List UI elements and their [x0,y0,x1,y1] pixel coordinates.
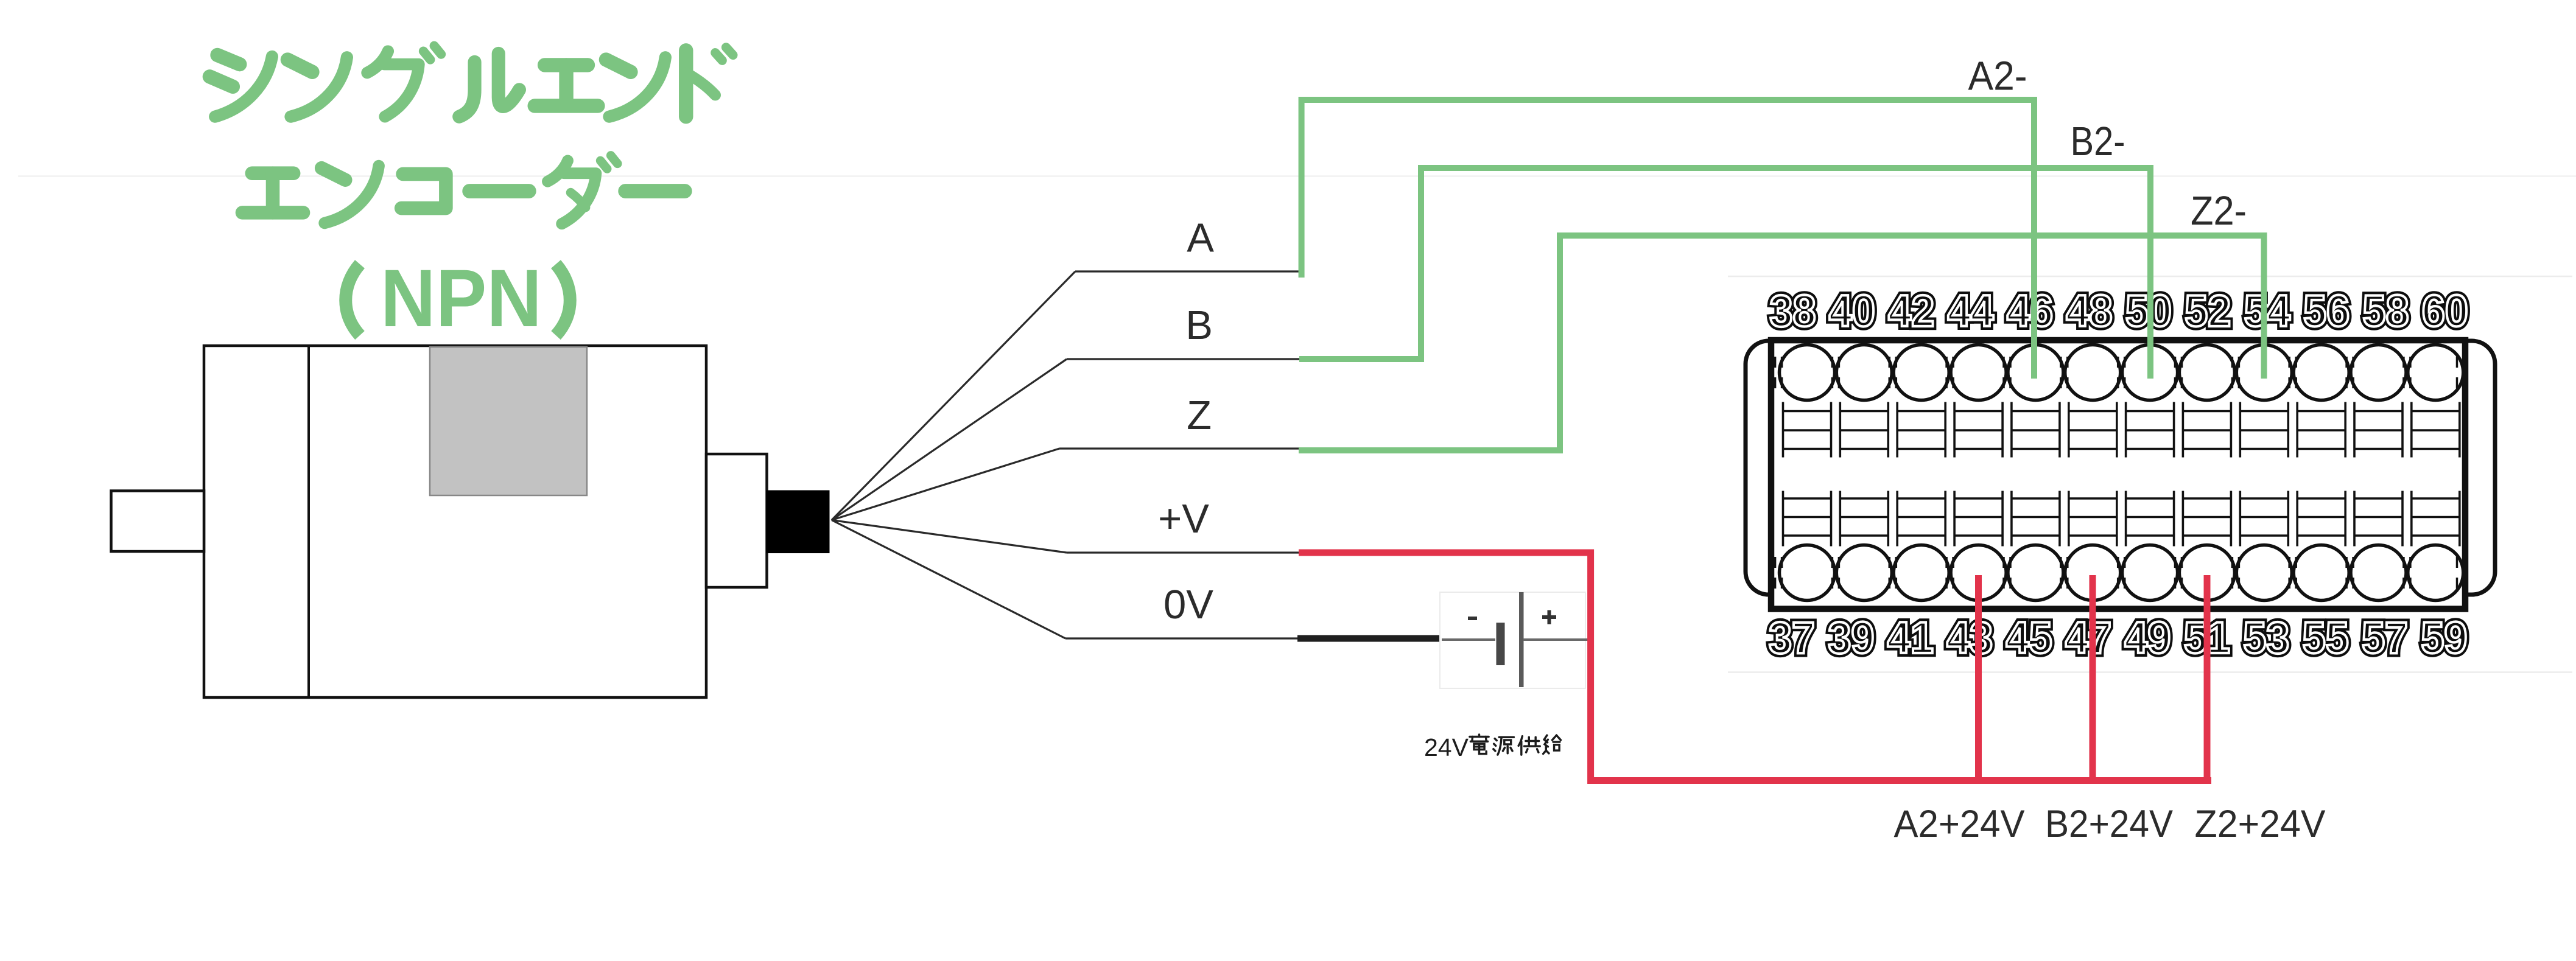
terminal ladder lower pin column 7 [2126,491,2174,547]
svg-text:40: 40 [1829,287,1875,336]
svg-text:47: 47 [2065,613,2111,663]
terminal block inner body [1771,340,2465,609]
svg-text:Z2-: Z2- [2191,188,2247,234]
pin tube connector bottom row [2004,557,2010,589]
terminal ladder lower pin column 8 [2183,491,2231,547]
terminal circle pin 42 [1893,345,1949,400]
red riser pin 47 [2090,575,2096,781]
pin tube connector bottom row [2457,557,2464,589]
terminal circle pin 44 [1951,345,2006,400]
fan wire to Z [832,449,1059,520]
svg-text:55: 55 [2303,613,2349,663]
wire +V (black segment) [1067,551,1300,553]
svg-text:43: 43 [1946,613,1993,663]
pin tube connector bottom row [2404,557,2410,589]
terminal ladder upper pin column 8 [2183,402,2231,458]
encoder gray block [430,347,587,495]
terminal circle pin 40 [1836,345,1892,400]
pin tube connector top row [1775,357,1782,388]
terminal circle pin 46 [2008,345,2063,400]
svg-text:Z2+24V: Z2+24V [2195,803,2326,845]
red riser pin 51 [2204,575,2211,781]
terminal ladder upper pin column 9 [2240,402,2288,458]
pin tube connector bottom row [2346,557,2353,589]
terminal ladder upper pin column 4 [1954,402,2002,458]
svg-text:49: 49 [2124,613,2171,663]
svg-text:38: 38 [1770,287,1816,336]
terminal ladder lower pin column 11 [2354,491,2402,547]
encoder body divider [307,346,310,697]
title glyph グ [367,46,441,116]
pin tube connector top row [2457,357,2464,388]
terminal circle pin 59 [2408,545,2463,601]
title glyph コ [401,174,446,208]
svg-text:59: 59 [2421,613,2467,663]
terminal circle pin 45 [2008,545,2063,601]
title glyph ン [606,57,665,116]
svg-text:0V: 0V [1163,582,1213,627]
wire 0V thick black segment [1297,635,1442,642]
red riser pin 43 [1975,575,1982,781]
label kanji 源 [1493,737,1514,755]
svg-text:24V: 24V [1424,733,1469,761]
pin tube connector top row [2289,357,2296,388]
terminal circle pin 38 [1780,345,1835,400]
terminal ladder lower pin column 12 [2412,491,2460,547]
wire B (black segment) [1067,358,1300,360]
fan wire to A [832,271,1075,520]
svg-text:B2+24V: B2+24V [2045,803,2173,845]
terminal circle pin 60 [2408,345,2463,400]
terminal ladder lower pin column 10 [2297,491,2345,547]
fan wire to +V [832,520,1067,553]
battery lead negative [1442,638,1495,641]
svg-text:A: A [1187,215,1214,261]
terminal ladder lower pin column 3 [1897,491,1945,547]
terminal circle pin 57 [2351,545,2406,601]
terminal ladder lower pin column 9 [2240,491,2288,547]
pin tube connector bottom row [1946,557,1953,589]
terminal circle pin 37 [1780,545,1835,601]
svg-text:46: 46 [2007,287,2053,336]
pin tube connector top row [2004,357,2010,388]
terminal circle pin 41 [1893,545,1949,601]
terminal circle pin 54 [2236,345,2292,400]
terminal circle pin 51 [2179,545,2234,601]
label kanji 電 [1470,735,1489,754]
svg-text:57: 57 [2362,613,2408,663]
terminal circle pin 43 [1951,545,2006,601]
svg-text:42: 42 [1888,287,1934,336]
encoder shaft [111,491,205,552]
title glyph ー [469,185,529,197]
pin tube connector top row [1832,357,1839,388]
terminal ladder lower pin column 2 [1840,491,1888,547]
battery negative plate [1497,623,1505,665]
pin tube connector top row [2061,357,2068,388]
svg-text:A2+24V: A2+24V [1894,803,2025,845]
green wire Z to pin 54 [1299,236,2264,450]
battery plus sign [1542,610,1556,624]
pin tube connector bottom row [2289,557,2296,589]
terminal circle pin 49 [2122,545,2178,601]
terminal circle pin 50 [2122,345,2178,400]
pin tube connector bottom row [2061,557,2068,589]
pin tube connector top row [2118,357,2125,388]
faint boundary line terminal bottom [1728,671,2572,673]
svg-text:B2-: B2- [2071,119,2125,164]
title glyph エ [535,65,598,106]
fan wire to 0V [832,520,1065,639]
terminal ladder lower pin column 1 [1783,491,1831,547]
svg-text:52: 52 [2185,287,2231,336]
title glyph ー [625,185,685,197]
svg-text:60: 60 [2422,287,2468,336]
green wire tip into pin 46 [2031,279,2037,379]
terminal ladder upper pin column 7 [2126,402,2174,458]
pin tube connector top row [2404,357,2410,388]
battery image background [1440,592,1585,688]
terminal ladder upper pin column 3 [1897,402,1945,458]
terminal circle pin 52 [2179,345,2234,400]
terminal circle pin 48 [2065,345,2121,400]
terminal circle pin 55 [2293,545,2349,601]
svg-text:A2-: A2- [1968,54,2027,99]
battery positive plate [1519,592,1524,687]
pin tube connector top row [2175,357,2182,388]
terminal block outer rounded housing [1746,341,2495,595]
wire A (black segment) [1075,270,1299,272]
svg-text:+V: +V [1158,496,1209,542]
title glyph ン [287,57,346,116]
green wire tip into pin 54 [2261,279,2267,379]
red wire tip from pin 47 [2090,575,2096,666]
green wire A to pin 46 [1302,100,2034,379]
pin tube connector bottom row [2232,557,2239,589]
pin tube connector top row [1946,357,1953,388]
encoder connector base [706,454,767,587]
wire Z (black segment) [1059,447,1300,449]
label kanji 給 [1543,735,1561,753]
svg-text:39: 39 [1828,613,1874,663]
svg-text:56: 56 [2303,287,2350,336]
svg-text:Z: Z [1187,393,1212,438]
pin tube connector bottom row [2175,557,2182,589]
red wire tip from pin 43 [1975,575,1982,666]
terminal ladder lower pin column 4 [1954,491,2002,547]
green wire B to pin 50 [1299,168,2150,379]
pin tube connector top row [1889,357,1896,388]
pin tube connector top row [2346,357,2353,388]
svg-text:45: 45 [2006,613,2052,663]
pin tube connector bottom row [1889,557,1896,589]
svg-text:58: 58 [2363,287,2409,336]
title glyph ダ [548,155,618,223]
terminal ladder lower pin column 6 [2069,491,2117,547]
terminal circle pin 58 [2351,345,2406,400]
terminal ladder upper pin column 2 [1840,402,1888,458]
svg-text:44: 44 [1948,287,1994,336]
svg-text:NPN: NPN [381,253,542,344]
battery minus sign [1468,617,1477,620]
terminal ladder upper pin column 5 [2012,402,2060,458]
title glyph シ [209,55,272,116]
svg-text:53: 53 [2243,613,2289,663]
red wire tip from pin 51 [2204,575,2211,666]
title glyph ン [321,166,379,223]
fan wire to B [832,359,1067,520]
terminal ladder lower pin column 5 [2012,491,2060,547]
terminal ladder upper pin column 6 [2069,402,2117,458]
encoder cable plug [767,491,830,554]
svg-text:48: 48 [2066,287,2113,336]
green wire tip into pin 50 [2147,279,2153,379]
title glyph エ [242,173,303,213]
encoder motor body [204,346,706,697]
svg-text:54: 54 [2244,287,2290,336]
terminal circle pin 47 [2065,545,2121,601]
label kanji 供 [1518,736,1540,755]
svg-text:B: B [1185,302,1213,348]
pin tube connector bottom row [2118,557,2125,589]
faint boundary line terminal top [1728,276,2572,278]
svg-text:37: 37 [1769,613,1815,663]
terminal ladder upper pin column 12 [2412,402,2460,458]
svg-text:41: 41 [1887,613,1934,663]
terminal ladder upper pin column 10 [2297,402,2345,458]
pin tube connector bottom row [1832,557,1839,589]
pin tube connector bottom row [1775,557,1782,589]
pin tube connector top row [2232,357,2239,388]
title glyph ル [459,54,519,117]
terminal circle pin 39 [1836,545,1892,601]
terminal ladder upper pin column 1 [1783,402,1831,458]
wire 0V (black segment) [1065,637,1299,639]
red wire +V to bus [1299,553,2211,781]
terminal ladder upper pin column 11 [2354,402,2402,458]
faint boundary line upper [18,175,2576,177]
title glyph ド [686,47,733,117]
battery lead positive [1523,638,1589,641]
terminal circle pin 56 [2293,345,2349,400]
terminal circle pin 53 [2236,545,2292,601]
